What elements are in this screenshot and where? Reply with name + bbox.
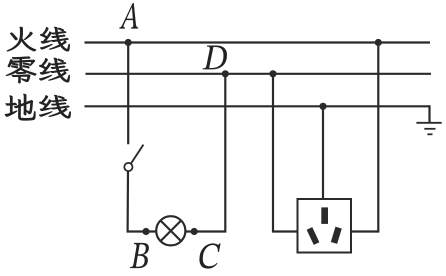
lamp circle [156, 216, 185, 245]
wire: neutral bus (零线) [86, 73, 432, 75]
label B [130, 243, 149, 268]
node: earth-to-socket junction dot [319, 103, 326, 110]
switch S pivot circle [124, 163, 132, 171]
wire: switch down and across to lamp [128, 171, 157, 231]
lamp cross X [161, 221, 182, 242]
node: neutral-to-socket junction dot [269, 70, 276, 77]
node: live-to-socket junction dot [375, 39, 382, 46]
wire: live drop to socket right [351, 43, 378, 232]
label A [119, 3, 138, 29]
socket right slot (angled) [331, 227, 342, 244]
socket body box [298, 199, 352, 253]
switch S lever [131, 145, 144, 164]
wire: earth corner down to ground [429, 106, 430, 123]
node B dot [142, 228, 149, 235]
wire: earth drop to socket top [322, 106, 324, 199]
label 地线 (earth wire name) [5, 94, 71, 120]
wire: live bus (火线) [85, 41, 431, 43]
label 火线 (live wire name) [7, 27, 70, 51]
wire: lamp to node D riser [185, 74, 225, 232]
wire: neutral drop to socket left [273, 74, 298, 232]
ground symbol (earth) [416, 123, 441, 135]
node A junction dot on live bus [125, 39, 132, 46]
label C [199, 243, 220, 268]
node D junction dot on neutral bus [222, 70, 229, 77]
label D [203, 45, 227, 69]
socket left slot (angled) [307, 227, 320, 245]
wire: drop from node A to switch [127, 43, 129, 145]
wire: earth bus (地线) [85, 105, 430, 107]
node C dot [191, 228, 198, 235]
label 零线 (neutral wire name) [6, 57, 70, 84]
socket earth slot (top vertical) [321, 207, 328, 224]
